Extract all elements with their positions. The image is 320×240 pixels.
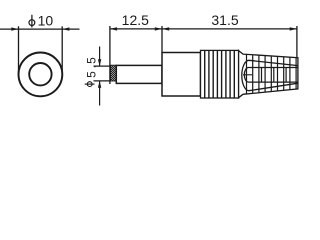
svg-text:31.5: 31.5 <box>211 12 238 28</box>
31.5 arrow pointing right <box>290 27 297 30</box>
cavity cone (bullet) <box>242 60 298 90</box>
31.5 dimension line <box>162 28 297 30</box>
φ5.5 bottom extension line <box>94 80 111 82</box>
knurled band outline <box>201 50 239 98</box>
12.5 dimension line <box>110 28 162 30</box>
φ10 arrow pointing right <box>11 27 18 30</box>
φ10 dimension line <box>0 28 80 30</box>
φ10 dimension: left extension line <box>18 26 20 74</box>
φ5.5 label (rotated) <box>84 57 98 87</box>
metal tip (hatched) <box>111 65 117 81</box>
φ5.5 lower dimension line with up arrow <box>99 81 101 106</box>
svg-text:12.5: 12.5 <box>122 12 149 28</box>
svg-text:5: 5 <box>84 71 98 78</box>
svg-text:10: 10 <box>38 12 54 28</box>
shared extension line (body front face) <box>161 26 163 53</box>
taper ribs (clipped verticals) <box>247 50 297 98</box>
svg-text:.: . <box>84 65 98 68</box>
φ10 label diameter symbol <box>29 15 35 28</box>
φ5.5 top extension line <box>94 65 112 67</box>
cable hole inner ribs <box>262 68 287 83</box>
outer circle (plug body, φ10) <box>19 53 63 97</box>
12.5 arrow pointing right <box>155 27 162 30</box>
31.5 arrow pointing left <box>162 27 169 30</box>
φ10 arrow pointing left <box>62 27 69 30</box>
svg-text:5: 5 <box>84 57 98 64</box>
barrel (φ5.5 sleeve) <box>116 65 162 83</box>
12.5 left extension line (tip front) <box>109 26 111 84</box>
body front section <box>162 53 201 97</box>
cable hole top line <box>244 68 298 83</box>
12.5 arrow pointing left <box>110 27 117 30</box>
inner circle (barrel) <box>29 63 51 85</box>
φ5.5 upper dimension line with down arrow <box>99 47 101 67</box>
cavity centerline nub <box>243 74 252 76</box>
knurl ribs <box>205 50 235 98</box>
φ10 dimension: right extension line <box>61 26 63 74</box>
rear taper (strain relief) outline <box>239 51 298 98</box>
31.5 right extension line (rear end) <box>296 26 298 58</box>
